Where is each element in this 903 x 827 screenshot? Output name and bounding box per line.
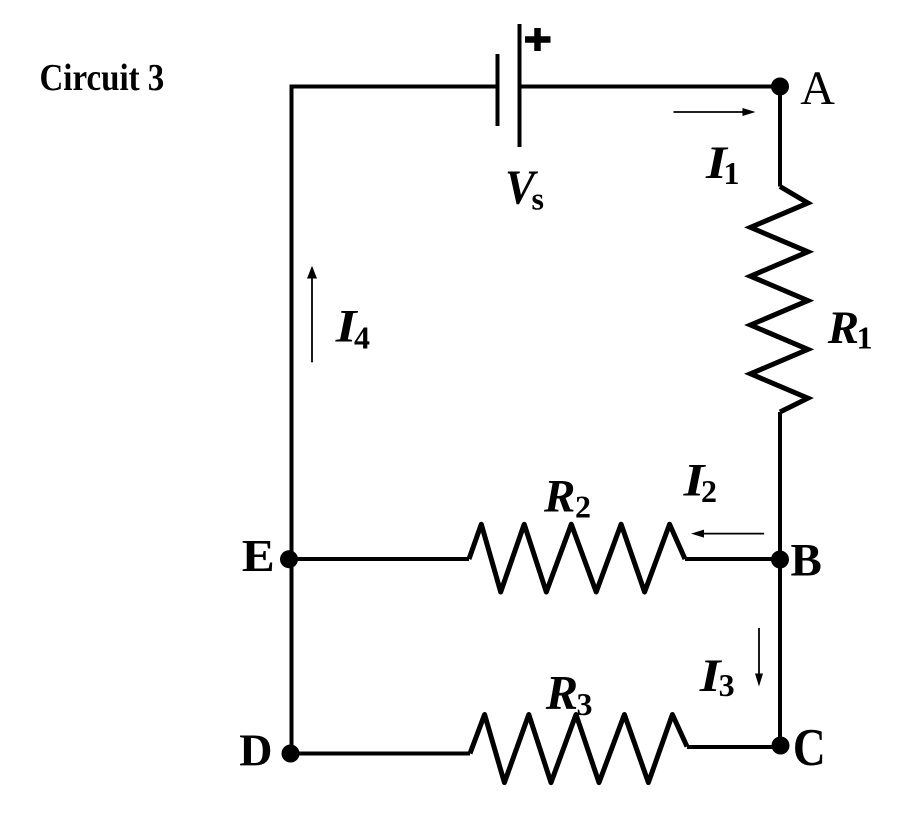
node E junction dot: [280, 550, 298, 568]
node A junction dot: [771, 78, 789, 96]
wire top from battery to node A: [520, 85, 781, 89]
wire node A to resistor R1: [778, 87, 782, 187]
svg-text:3: 3: [577, 686, 593, 722]
current arrow I4: [307, 266, 317, 363]
svg-text:D: D: [239, 725, 272, 776]
label I2: [683, 455, 717, 510]
current arrow I3: [755, 628, 763, 687]
wire resistor R1 to node B: [778, 412, 782, 560]
wire resistor R3 to node C: [687, 745, 781, 749]
wire node D to resistor R3: [291, 752, 471, 756]
svg-text:R: R: [545, 667, 578, 720]
label R3: [545, 667, 593, 722]
resistor R3: [470, 715, 687, 783]
label Vs: [505, 160, 544, 217]
node C junction dot: [772, 737, 790, 755]
svg-text:A: A: [800, 62, 835, 115]
label I4: [335, 301, 370, 356]
svg-text:2: 2: [575, 489, 591, 525]
svg-text:s: s: [532, 181, 544, 217]
wire node B to node C: [778, 560, 782, 746]
battery polarity + mark: [525, 28, 551, 51]
svg-text:2: 2: [701, 473, 717, 509]
svg-text:E: E: [242, 530, 275, 581]
resistor R1: [751, 187, 808, 413]
wire resistor R2 to node B: [685, 557, 780, 561]
current arrow I2: [691, 530, 764, 538]
label R1: [827, 302, 873, 356]
label I3: [699, 650, 735, 703]
node D junction dot: [282, 745, 300, 763]
label R2: [543, 471, 591, 525]
svg-text:1: 1: [724, 155, 740, 191]
battery Vs positive plate: [518, 24, 522, 147]
svg-text:Circuit 3: Circuit 3: [40, 57, 165, 99]
svg-text:R: R: [543, 471, 575, 523]
svg-text:C: C: [793, 719, 826, 777]
svg-text:3: 3: [719, 667, 735, 703]
node B junction dot: [771, 551, 789, 569]
svg-text:R: R: [827, 302, 859, 354]
battery Vs negative plate: [496, 54, 500, 126]
resistor R2: [469, 524, 685, 592]
current arrow I1: [674, 108, 756, 116]
svg-text:1: 1: [857, 319, 873, 355]
label I1: [705, 137, 740, 191]
wire node E to resistor R2: [289, 557, 469, 561]
wire left rail and top-left segment to battery: [292, 87, 498, 754]
svg-text:B: B: [791, 535, 822, 587]
svg-text:4: 4: [354, 320, 370, 356]
